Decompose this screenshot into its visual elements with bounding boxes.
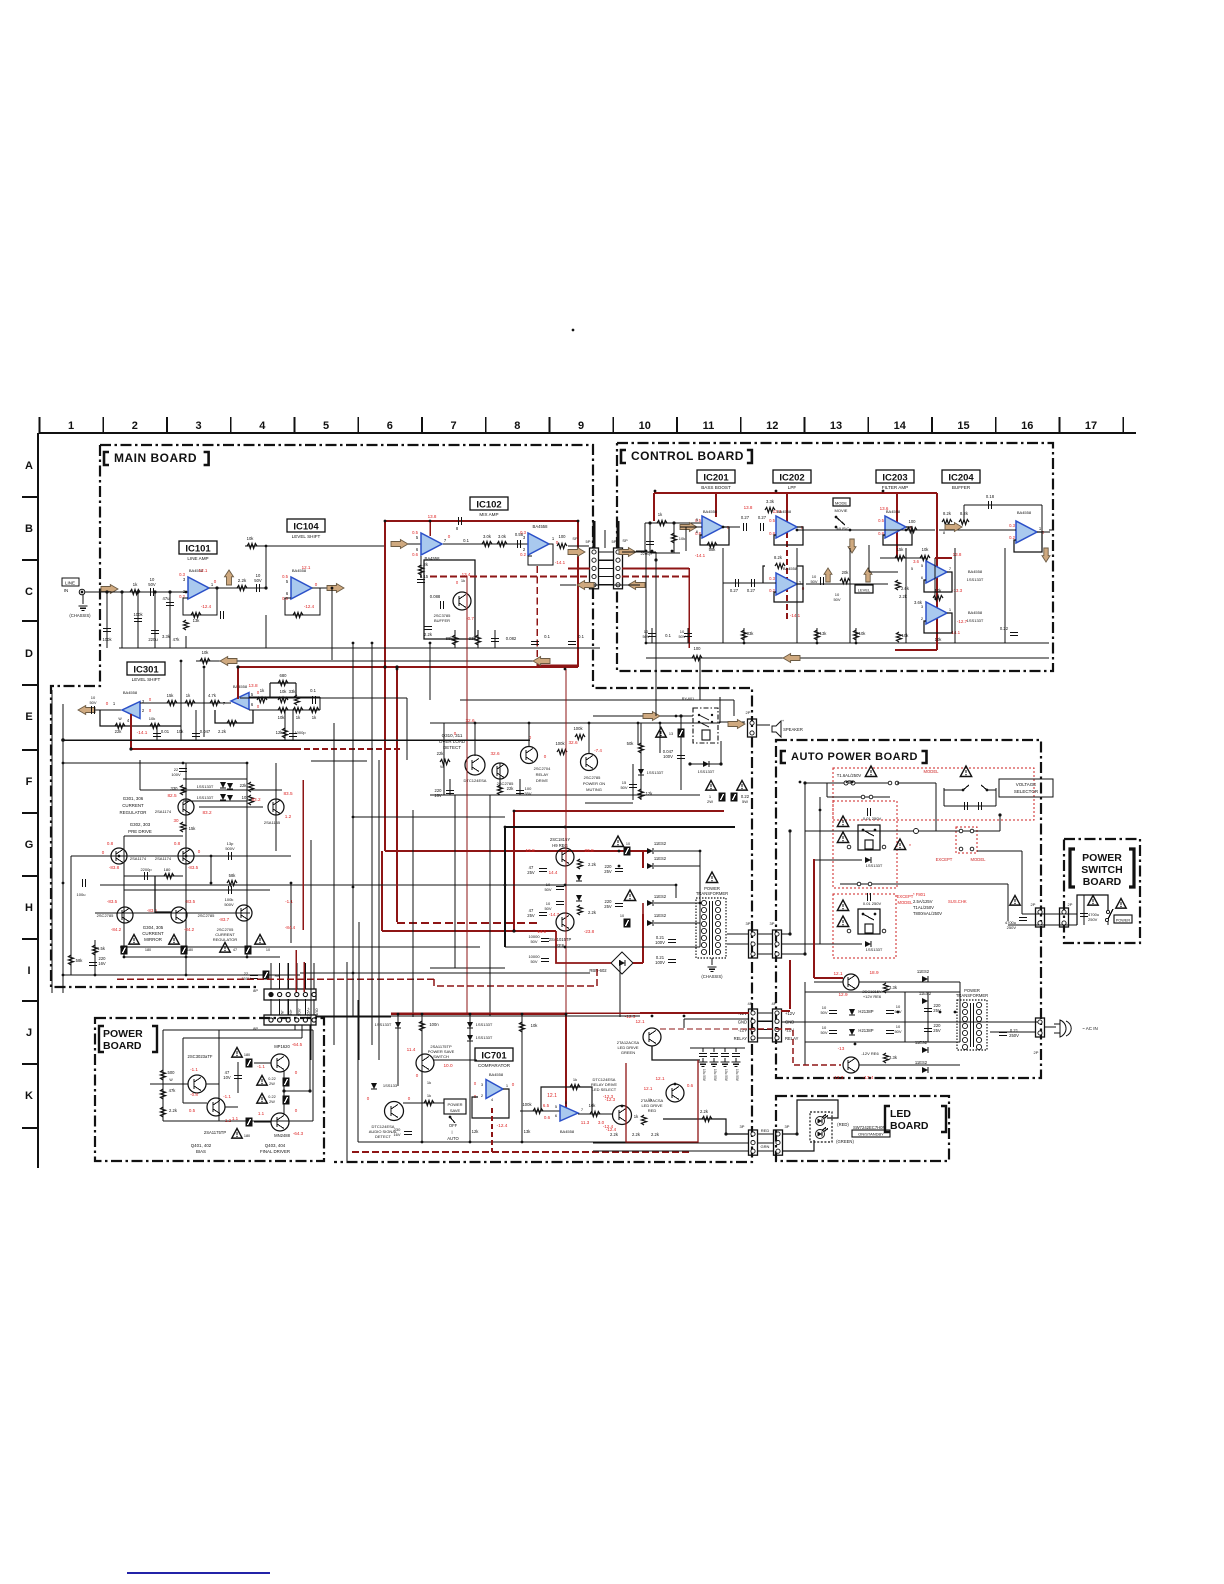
svg-text:MN2488: MN2488 (274, 1133, 290, 1138)
svg-text:250V: 250V (1007, 925, 1017, 930)
svg-text:IN: IN (64, 588, 69, 593)
svg-text:BOARD: BOARD (103, 1040, 142, 1052)
svg-text:2SA1145: 2SA1145 (264, 820, 281, 825)
svg-text:10k: 10k (280, 689, 288, 694)
svg-text:2SC2785: 2SC2785 (198, 913, 215, 918)
svg-text:-12.3: -12.3 (603, 1094, 614, 1099)
svg-text:OUT: OUT (314, 1008, 318, 1015)
svg-text:47k: 47k (169, 1088, 177, 1093)
svg-text:BA4558: BA4558 (968, 610, 983, 615)
svg-text:8.2k: 8.2k (943, 511, 952, 516)
svg-text:0.2: 0.2 (520, 552, 526, 557)
svg-text:0.3: 0.3 (769, 576, 775, 581)
svg-text:1SS133T: 1SS133T (866, 863, 883, 868)
svg-text:0.22: 0.22 (268, 1077, 275, 1081)
svg-text:0.18: 0.18 (986, 494, 995, 499)
svg-text:MODEL: MODEL (924, 769, 940, 774)
svg-text:11ES2: 11ES2 (654, 894, 667, 899)
svg-text:2SA1174: 2SA1174 (155, 856, 172, 861)
svg-text:13.8: 13.8 (428, 514, 437, 519)
svg-text:0.27: 0.27 (730, 588, 739, 593)
svg-text:30: 30 (173, 818, 179, 823)
svg-text:10.0: 10.0 (443, 1063, 453, 1068)
svg-text:4: 4 (259, 420, 266, 432)
svg-text:0.1: 0.1 (310, 688, 316, 693)
svg-text:1SS133: 1SS133 (383, 1083, 398, 1088)
svg-text:BA4558: BA4558 (703, 509, 718, 514)
svg-text:32.6: 32.6 (568, 740, 578, 745)
svg-text:2.2k: 2.2k (588, 862, 597, 867)
svg-text:LED: LED (890, 1108, 911, 1120)
svg-text:9: 9 (578, 420, 584, 432)
svg-text:-12.4: -12.4 (497, 1123, 508, 1128)
svg-text:T1.6AL/250V: T1.6AL/250V (837, 773, 862, 778)
svg-text:AUTO: AUTO (447, 1136, 459, 1141)
svg-text:SWITCH: SWITCH (1081, 864, 1122, 876)
svg-text:(GREEN): (GREEN) (836, 1139, 854, 1144)
svg-text:-84.2: -84.2 (184, 927, 195, 932)
svg-text:13.8: 13.8 (744, 505, 753, 510)
svg-text:-0.8: -0.8 (190, 1092, 198, 1097)
svg-text:BIAS: BIAS (196, 1149, 206, 1154)
svg-text:ON/STANDBY: ON/STANDBY (858, 1132, 884, 1137)
svg-text:8.2k: 8.2k (774, 555, 783, 560)
svg-text:DETECT: DETECT (443, 745, 461, 750)
svg-text:0.1: 0.1 (463, 538, 469, 543)
svg-text:100u: 100u (77, 892, 86, 897)
svg-text:11.4: 11.4 (407, 1047, 416, 1052)
svg-text:11: 11 (703, 420, 715, 432)
svg-text:0.3: 0.3 (520, 530, 526, 535)
svg-text:2P: 2P (1031, 902, 1036, 907)
svg-text:4P: 4P (748, 1001, 753, 1006)
svg-text:180: 180 (164, 867, 171, 872)
svg-text:83.2: 83.2 (202, 810, 212, 815)
svg-text:33k: 33k (289, 689, 297, 694)
svg-text:-1.1: -1.1 (190, 1067, 198, 1072)
svg-text:1000p: 1000p (294, 730, 306, 735)
svg-text:BA4558: BA4558 (783, 566, 798, 571)
svg-text:12.1: 12.1 (655, 1076, 665, 1081)
svg-text:16V: 16V (393, 1132, 400, 1137)
svg-text:-83.7: -83.7 (219, 917, 230, 922)
svg-text:0.1: 0.1 (665, 633, 671, 638)
svg-text:RELAY: RELAY (785, 1036, 799, 1041)
svg-text:2W: 2W (269, 1100, 275, 1104)
svg-text:6: 6 (387, 420, 393, 432)
svg-text:IC101: IC101 (185, 543, 211, 554)
svg-text:SUS.CHK: SUS.CHK (948, 899, 967, 904)
svg-text:100n: 100n (429, 1022, 439, 1027)
svg-text:RED: RED (761, 1128, 770, 1133)
svg-text:0.088: 0.088 (430, 594, 441, 599)
svg-text:LED SELECT: LED SELECT (592, 1087, 617, 1092)
svg-text:-14.1: -14.1 (695, 553, 706, 558)
svg-text:0.5: 0.5 (769, 518, 775, 523)
svg-text:IC202: IC202 (779, 472, 804, 483)
svg-text:12.1: 12.1 (635, 1019, 645, 1024)
svg-text:11ES2: 11ES2 (917, 969, 930, 974)
svg-text:H2138P: H2138P (858, 1009, 873, 1014)
svg-text:12.1: 12.1 (302, 565, 311, 570)
svg-text:SWITCH: SWITCH (433, 1054, 449, 1059)
svg-text:SPEAKER: SPEAKER (783, 727, 803, 732)
svg-text:3.6k: 3.6k (914, 600, 923, 605)
svg-text:3.3k: 3.3k (889, 985, 898, 990)
svg-text:MODE: MODE (835, 501, 847, 506)
svg-text:I: I (27, 965, 30, 977)
svg-text:CURRENT: CURRENT (142, 931, 164, 936)
svg-text:PRE DRIVE: PRE DRIVE (128, 829, 152, 834)
svg-text:50V: 50V (89, 700, 96, 705)
svg-text:LEVEL SHIFT: LEVEL SHIFT (292, 534, 321, 539)
svg-text:BA4558: BA4558 (123, 690, 138, 695)
svg-text:58k: 58k (76, 958, 84, 963)
svg-text:MOVIE: MOVIE (835, 508, 848, 513)
svg-text:4.7k: 4.7k (208, 693, 217, 698)
svg-text:LINE: LINE (65, 581, 75, 586)
svg-text:180: 180 (244, 1134, 250, 1138)
svg-text:BA4558: BA4558 (489, 1072, 504, 1077)
svg-text:~ AC IN: ~ AC IN (1082, 1026, 1098, 1031)
svg-text:SP: SP (622, 538, 628, 543)
svg-text:0.6: 0.6 (687, 1083, 694, 1088)
svg-text:-1.1: -1.1 (285, 899, 293, 904)
svg-text:12k: 12k (472, 1129, 480, 1134)
svg-text:0.5: 0.5 (282, 574, 288, 579)
svg-text:-83.8: -83.8 (109, 865, 120, 870)
svg-text:0.22: 0.22 (1000, 626, 1009, 631)
svg-text:50V: 50V (530, 939, 537, 944)
svg-text:0.047: 0.047 (200, 729, 211, 734)
svg-text:11ES2: 11ES2 (654, 913, 667, 918)
svg-text:-12.4: -12.4 (201, 604, 212, 609)
svg-text:-12.4: -12.4 (603, 1124, 614, 1129)
svg-text:50V: 50V (620, 785, 627, 790)
svg-text:IC301: IC301 (133, 664, 159, 675)
svg-text:C: C (25, 586, 33, 598)
svg-text:5: 5 (323, 420, 329, 432)
svg-text:5P: 5P (586, 539, 591, 544)
svg-text:3P: 3P (785, 1124, 790, 1129)
svg-text:100: 100 (559, 534, 567, 539)
svg-text:DETECT: DETECT (375, 1134, 392, 1139)
svg-text:RBN-602: RBN-602 (589, 968, 607, 973)
svg-text:2SA1175TP: 2SA1175TP (204, 1130, 226, 1135)
svg-text:6.5: 6.5 (543, 1103, 550, 1108)
svg-text:REGULATOR: REGULATOR (120, 810, 147, 815)
svg-text:-7.4: -7.4 (594, 748, 602, 753)
svg-text:23.8: 23.8 (584, 848, 594, 853)
svg-text:-83.5: -83.5 (107, 899, 118, 904)
svg-text:3.6: 3.6 (913, 559, 919, 564)
svg-text:3.0k: 3.0k (498, 534, 507, 539)
svg-text:0.1: 0.1 (578, 634, 584, 639)
svg-text:12.9: 12.9 (838, 992, 848, 997)
svg-text:LEVEL: LEVEL (858, 588, 871, 593)
svg-text:SW7242EC7H0F: SW7242EC7H0F (853, 1125, 886, 1130)
svg-text:180: 180 (244, 1053, 250, 1057)
svg-text:100k: 100k (555, 741, 565, 746)
svg-text:8: 8 (514, 420, 520, 432)
svg-text:BA4558: BA4558 (560, 1129, 575, 1134)
svg-text:2: 2 (132, 420, 138, 432)
svg-text:1SS133T: 1SS133T (476, 1035, 493, 1040)
svg-text:50V: 50V (833, 597, 840, 602)
svg-text:5W: 5W (742, 799, 748, 804)
svg-text:500V: 500V (224, 902, 234, 907)
svg-text:POWER: POWER (447, 1102, 462, 1107)
svg-text:0.082: 0.082 (506, 636, 517, 641)
svg-text:IC102: IC102 (476, 499, 501, 510)
svg-text:-14.1: -14.1 (137, 730, 148, 735)
svg-text:-14.1: -14.1 (790, 613, 801, 618)
svg-text:0.01 250V: 0.01 250V (863, 816, 882, 821)
svg-text:-17.4: -17.4 (863, 1075, 874, 1080)
svg-text:12.1: 12.1 (199, 568, 208, 573)
svg-text:G301, 306: G301, 306 (123, 796, 144, 801)
svg-text:GREEN: GREEN (621, 1050, 635, 1055)
svg-text:50V: 50V (544, 906, 551, 911)
svg-text:MUSIC: MUSIC (837, 526, 850, 531)
svg-text:2.2k: 2.2k (424, 632, 433, 637)
svg-text:EXCEPT: EXCEPT (936, 857, 953, 862)
svg-text:BA4558: BA4558 (533, 524, 549, 529)
svg-text:SAVE: SAVE (450, 1108, 461, 1113)
svg-text:J: J (26, 1027, 32, 1039)
svg-text:2.2k: 2.2k (169, 1108, 178, 1113)
svg-text:-1.1: -1.1 (223, 1094, 231, 1099)
svg-text:2P: 2P (1034, 1050, 1039, 1055)
svg-text:13k: 13k (524, 1129, 532, 1134)
svg-text:BOARD: BOARD (890, 1120, 929, 1132)
svg-text:SP: SP (572, 536, 578, 541)
svg-text:2.2k: 2.2k (218, 729, 227, 734)
svg-text:14: 14 (894, 420, 907, 432)
svg-text:12: 12 (766, 420, 778, 432)
svg-text:2SA1174: 2SA1174 (155, 809, 172, 814)
svg-text:13.8: 13.8 (248, 683, 258, 688)
svg-text:IC104: IC104 (293, 521, 319, 532)
svg-text:-13: -13 (838, 1046, 845, 1051)
svg-text:RELAY: RELAY (734, 1036, 748, 1041)
svg-text:0.22: 0.22 (268, 1095, 275, 1099)
svg-text:50V: 50V (810, 579, 817, 584)
svg-text:BA4558: BA4558 (968, 569, 983, 574)
svg-text:GND: GND (738, 1019, 747, 1024)
svg-text:0.27: 0.27 (741, 515, 750, 520)
svg-text:MUTING: MUTING (586, 787, 602, 792)
svg-text:100V: 100V (663, 754, 673, 759)
svg-text:0.3: 0.3 (1009, 523, 1015, 528)
svg-text:47k: 47k (173, 637, 181, 642)
svg-text:25V: 25V (604, 869, 612, 874)
svg-text:3.3k: 3.3k (766, 499, 775, 504)
svg-text:0.5: 0.5 (189, 1108, 196, 1113)
svg-text:15: 15 (957, 420, 969, 432)
svg-text:50V: 50V (820, 1010, 827, 1015)
svg-text:+12V RE6: +12V RE6 (863, 994, 882, 999)
svg-text:2.2k: 2.2k (610, 1132, 619, 1137)
svg-text:1k: 1k (427, 1093, 431, 1098)
svg-text:10u 50V: 10u 50V (702, 1069, 706, 1082)
svg-text:*: * (909, 844, 911, 850)
svg-text:-64.5: -64.5 (292, 1042, 303, 1047)
svg-text:3.0k: 3.0k (483, 534, 492, 539)
svg-text:-84.4: -84.4 (285, 925, 296, 930)
svg-text:E: E (25, 711, 32, 723)
svg-text:BUFFER: BUFFER (434, 618, 450, 623)
svg-text:180: 180 (145, 948, 151, 952)
svg-text:47u: 47u (163, 596, 171, 601)
svg-text:BA4558: BA4558 (886, 509, 901, 514)
svg-text:T1AL/250V: T1AL/250V (913, 905, 934, 910)
svg-text:1SS133T: 1SS133T (375, 1022, 392, 1027)
svg-text:B: B (25, 523, 33, 535)
svg-text:H2138P: H2138P (858, 1028, 873, 1033)
svg-text:0.6: 0.6 (412, 552, 418, 557)
svg-text:LEVEL SHIFT: LEVEL SHIFT (132, 677, 161, 682)
svg-text:2P: 2P (1068, 902, 1073, 907)
svg-text:0.3: 0.3 (179, 572, 185, 577)
svg-text:LPF: LPF (788, 485, 797, 490)
svg-text:10k: 10k (935, 637, 943, 642)
svg-text:-12.4: -12.4 (304, 604, 315, 609)
svg-text:1.2: 1.2 (285, 814, 292, 819)
svg-text:10k: 10k (922, 547, 930, 552)
svg-text:GRN: GRN (761, 1144, 770, 1149)
svg-text:-64.3: -64.3 (293, 1131, 304, 1136)
svg-text:0.27: 0.27 (747, 588, 756, 593)
svg-text:D: D (25, 648, 33, 660)
svg-text:LINE AMP: LINE AMP (187, 556, 208, 561)
svg-text:AUTO POWER BOARD: AUTO POWER BOARD (791, 751, 918, 763)
svg-text:IC203: IC203 (882, 472, 907, 483)
svg-text:2W: 2W (707, 799, 713, 804)
svg-text:82.5: 82.5 (167, 793, 177, 798)
svg-text:32.6: 32.6 (490, 751, 500, 756)
svg-text:COMPARATOR: COMPARATOR (478, 1063, 511, 1068)
svg-text:Q401, 402: Q401, 402 (191, 1143, 212, 1148)
svg-text:15k: 15k (189, 826, 197, 831)
svg-text:T800mAL/250V: T800mAL/250V (913, 911, 942, 916)
svg-text:2W: 2W (269, 1082, 275, 1086)
svg-text:180: 180 (187, 948, 193, 952)
svg-text:20k: 20k (842, 570, 850, 575)
svg-text:POWER: POWER (103, 1028, 143, 1040)
svg-text:1.2: 1.2 (225, 1118, 232, 1123)
svg-text:2.2k: 2.2k (632, 1132, 641, 1137)
svg-text:1.1: 1.1 (258, 1111, 265, 1116)
svg-text:10k: 10k (589, 1103, 597, 1108)
svg-text:13: 13 (830, 420, 842, 432)
svg-text:2SA1174: 2SA1174 (130, 856, 147, 861)
svg-text:G: G (25, 839, 34, 851)
svg-text:-13.3: -13.3 (952, 588, 963, 593)
svg-text:100k: 100k (133, 612, 143, 617)
svg-text:2200p: 2200p (140, 867, 152, 872)
svg-text:0.01 250V: 0.01 250V (863, 901, 882, 906)
svg-text:100: 100 (694, 646, 702, 651)
svg-text:83.2: 83.2 (251, 797, 261, 802)
svg-text:0.2: 0.2 (1009, 535, 1015, 540)
svg-text:Q310, 311: Q310, 311 (442, 733, 463, 738)
svg-text:0.8: 0.8 (107, 841, 114, 846)
svg-text:7: 7 (450, 420, 456, 432)
svg-text:EXCEPT: EXCEPT (897, 894, 914, 899)
svg-text:10k: 10k (531, 1023, 539, 1028)
svg-text:2SC2704: 2SC2704 (534, 766, 551, 771)
svg-text:25V: 25V (527, 913, 535, 918)
svg-text:10k: 10k (149, 716, 155, 721)
svg-text:10k: 10k (679, 536, 685, 541)
svg-text:-IN: -IN (280, 1010, 284, 1015)
svg-text:0.5: 0.5 (878, 518, 884, 523)
svg-text:1SS133T: 1SS133T (197, 784, 214, 789)
svg-text:OFF: OFF (449, 1123, 458, 1128)
svg-text:13: 13 (669, 732, 673, 736)
svg-text:MAIN BOARD: MAIN BOARD (114, 451, 197, 465)
svg-text:50V: 50V (530, 959, 537, 964)
svg-text:50V: 50V (820, 1030, 827, 1035)
svg-text:25V: 25V (527, 870, 535, 875)
svg-text:50V: 50V (544, 887, 551, 892)
svg-text:MIX AMP: MIX AMP (479, 512, 498, 517)
svg-text:25V: 25V (933, 1028, 941, 1033)
svg-text:25V: 25V (604, 904, 612, 909)
svg-text:13k: 13k (193, 618, 201, 623)
svg-text:10u 50V: 10u 50V (735, 1069, 739, 1082)
svg-text:IC701: IC701 (481, 1050, 507, 1061)
svg-text:17: 17 (1085, 420, 1097, 432)
svg-text:10: 10 (620, 914, 624, 918)
svg-text:50V: 50V (148, 582, 156, 587)
svg-text:1SS133T: 1SS133T (698, 769, 715, 774)
svg-text:100V: 100V (171, 772, 181, 777)
svg-text:10: 10 (626, 842, 630, 846)
svg-text:1SS133T: 1SS133T (967, 618, 984, 623)
svg-text:CURRENT: CURRENT (122, 803, 144, 808)
svg-text:-12.3: -12.3 (833, 1075, 844, 1080)
svg-text:10u 50V: 10u 50V (713, 1069, 717, 1082)
svg-text:2.5A/125V: 2.5A/125V (913, 899, 933, 904)
svg-text:50V: 50V (678, 634, 685, 639)
svg-text:1k: 1k (133, 582, 139, 587)
svg-text:FINAL DRIVER: FINAL DRIVER (260, 1149, 290, 1154)
svg-text:3P: 3P (746, 921, 751, 926)
svg-text:5P: 5P (612, 539, 617, 544)
svg-text:8P: 8P (253, 988, 258, 993)
svg-text:DRIVE: DRIVE (536, 778, 549, 783)
svg-text:12.1: 12.1 (644, 1086, 653, 1091)
svg-text:83.5: 83.5 (283, 791, 293, 796)
svg-text:-83.5: -83.5 (185, 899, 196, 904)
svg-text:10k: 10k (247, 536, 255, 541)
svg-text:100k: 100k (522, 1102, 532, 1107)
svg-text:10k: 10k (202, 650, 210, 655)
svg-text:100V: 100V (655, 940, 665, 945)
svg-text:4P: 4P (772, 1001, 777, 1006)
svg-text:(CHASSIS): (CHASSIS) (701, 974, 723, 979)
svg-text:250V: 250V (1088, 917, 1098, 922)
svg-text:22k: 22k (115, 729, 123, 734)
svg-text:10: 10 (639, 420, 651, 432)
svg-text:0.6: 0.6 (544, 1115, 551, 1120)
svg-text:-12V RE6: -12V RE6 (861, 1051, 879, 1056)
svg-text:1SS133T: 1SS133T (866, 947, 883, 952)
svg-text:10u 50V: 10u 50V (724, 1069, 728, 1082)
svg-text:MODEL: MODEL (971, 857, 987, 862)
